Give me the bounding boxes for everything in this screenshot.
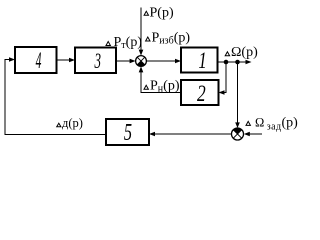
wire from node 2 down to junction 2 [237, 62, 239, 124]
summing junction U1 (comparator) [136, 56, 147, 67]
svg-text:P(p): P(p) [150, 6, 174, 21]
arrowhead into junction 2 top [235, 122, 240, 128]
svg-text:5: 5 [124, 120, 132, 146]
wire block 1 output [218, 61, 248, 63]
wire setpoint input to junction 2 from right [249, 133, 263, 135]
wire junction 1 to block 1 [146, 60, 176, 62]
svg-text:2: 2 [197, 82, 206, 107]
node dot 1 [224, 60, 229, 65]
wire feedback bottom-left (block 5 output to block 4 input) [5, 60, 106, 135]
block 5 [106, 119, 149, 146]
arrowhead into junction 2 right [244, 132, 250, 137]
arrowhead into junction 1 top [139, 50, 144, 56]
block 2 [181, 80, 219, 106]
wire block 3 to summing junction 1 [116, 60, 131, 62]
arrowhead into block 1 [175, 59, 181, 64]
arrowhead into block 5 right [149, 132, 155, 137]
label delta Pizb(p) [146, 31, 191, 47]
block 4 [15, 47, 57, 74]
arrowhead into block 3 [69, 58, 75, 63]
arrowhead output right [246, 60, 252, 65]
svg-text:1: 1 [198, 48, 206, 73]
svg-text:4: 4 [36, 47, 42, 74]
svg-text:д(p): д(p) [62, 116, 83, 130]
wire top input P(p) [140, 8, 142, 52]
label delta mu(p) [57, 116, 83, 130]
wire junction 2 to block 5 [154, 133, 232, 135]
label delta Omega zad(p) [246, 115, 298, 132]
arrowhead into block 2 right [219, 90, 225, 95]
wire block 2 output to junction 1 bottom [141, 71, 181, 93]
arrowhead into block 4 [9, 57, 15, 62]
label delta Pt(p) [106, 35, 142, 51]
wire block 4 to block 3 [57, 59, 71, 61]
svg-text:Pн(p): Pн(p) [150, 78, 180, 94]
wire from node 1 down into block 2 [223, 62, 226, 93]
block 1 [181, 48, 218, 74]
arrowhead into junction 1 left [130, 59, 136, 64]
label delta Omega(p) [225, 45, 258, 60]
node dot 2 [235, 60, 240, 65]
arrowhead into junction 1 bottom [139, 66, 144, 72]
label delta P(p) [144, 6, 174, 21]
svg-text:3: 3 [94, 48, 101, 73]
block 3 [75, 48, 116, 74]
svg-text:Pт(p): Pт(p) [114, 35, 143, 51]
svg-text:Ω(p): Ω(p) [231, 45, 258, 60]
summing junction U2 (comparator) [232, 128, 244, 140]
label delta Pn(p) [144, 78, 180, 94]
